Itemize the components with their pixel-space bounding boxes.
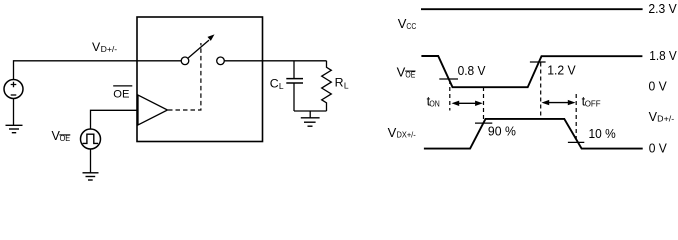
- tON label: [427, 93, 440, 108]
- svg-text:0 V: 0 V: [649, 79, 668, 94]
- svg-text:D+/-: D+/-: [657, 114, 674, 124]
- 90% crossing tick: [475, 122, 492, 124]
- VCC level line: [421, 8, 643, 10]
- svg-text:R: R: [335, 76, 344, 90]
- wire from VOE to buffer: [91, 110, 139, 129]
- ground (V1): [6, 125, 23, 132]
- ground (VOE): [83, 173, 99, 180]
- VCC label: [398, 16, 417, 31]
- DUT box: [137, 17, 263, 142]
- tOFF arrow: [542, 100, 576, 105]
- wire to ground stem: [309, 111, 311, 118]
- VOE label: [52, 129, 71, 143]
- VOE waveform: [421, 56, 642, 87]
- svg-text:OFF: OFF: [585, 98, 601, 108]
- svg-text:D+/-: D+/-: [101, 44, 118, 54]
- 1.8 V label: [649, 48, 677, 63]
- svg-text:C: C: [270, 77, 279, 91]
- 90 % label: [488, 123, 516, 138]
- 1.2 V crossing tick: [530, 61, 546, 63]
- 0 V label (OE low): [649, 79, 668, 94]
- svg-text:CC: CC: [406, 21, 416, 31]
- ground (CL RL): [301, 118, 320, 126]
- svg-text:L: L: [344, 80, 349, 90]
- svg-text:L: L: [279, 81, 284, 91]
- VOE waveform label: [397, 65, 416, 80]
- OE label: [113, 86, 132, 100]
- 10 % label: [589, 126, 617, 141]
- 0 V label (VDX low): [649, 140, 667, 155]
- svg-text:2.3 V: 2.3 V: [648, 1, 677, 16]
- wire from V1 to ground: [13, 99, 15, 126]
- 10% crossing tick: [568, 141, 584, 143]
- 0.8 V label: [458, 63, 486, 78]
- switch S1: [181, 34, 224, 64]
- dashed guide at 1.2V crossing: [540, 63, 542, 120]
- dashed guide at 90% crossing: [483, 87, 485, 123]
- RL label: [335, 76, 349, 91]
- svg-text:1.2 V: 1.2 V: [547, 62, 576, 77]
- svg-text:10 %: 10 %: [589, 126, 617, 141]
- svg-text:90 %: 90 %: [488, 123, 516, 138]
- VDX+/- label: [388, 125, 416, 140]
- VDX waveform: [424, 119, 643, 149]
- 1.2 V label: [547, 62, 576, 77]
- svg-text:ON: ON: [429, 98, 439, 108]
- svg-text:DX+/-: DX+/-: [397, 130, 416, 140]
- tOFF label: [582, 93, 601, 108]
- 0.8 V crossing tick: [439, 78, 458, 80]
- capacitor CL: [286, 61, 303, 111]
- svg-text:V: V: [388, 125, 397, 140]
- dashed guide at 0.8V crossing: [449, 80, 451, 111]
- wire from VOE to ground: [90, 149, 92, 173]
- VD+/- label (right): [649, 110, 675, 124]
- node VD+/- label: [92, 40, 117, 54]
- voltage source V1: [4, 80, 23, 99]
- wire from V1 to switch pole: [14, 61, 182, 80]
- dashed guide at 10% crossing: [575, 94, 577, 143]
- svg-text:0 V: 0 V: [649, 140, 667, 155]
- resistor RL: [322, 61, 332, 111]
- tON arrow: [452, 101, 483, 106]
- svg-text:0.8 V: 0.8 V: [458, 63, 486, 78]
- svg-text:1.8 V: 1.8 V: [649, 48, 677, 63]
- CL label: [270, 77, 284, 91]
- svg-text:V: V: [397, 65, 406, 80]
- wire from switch to output: [224, 60, 326, 62]
- source VOE (pulse generator): [81, 129, 101, 149]
- wire CL to RL bottom: [294, 110, 327, 112]
- svg-text:OE: OE: [113, 88, 129, 100]
- dashed control line: [168, 43, 201, 110]
- 2.3 V label: [648, 1, 677, 16]
- buffer U1: [138, 95, 168, 125]
